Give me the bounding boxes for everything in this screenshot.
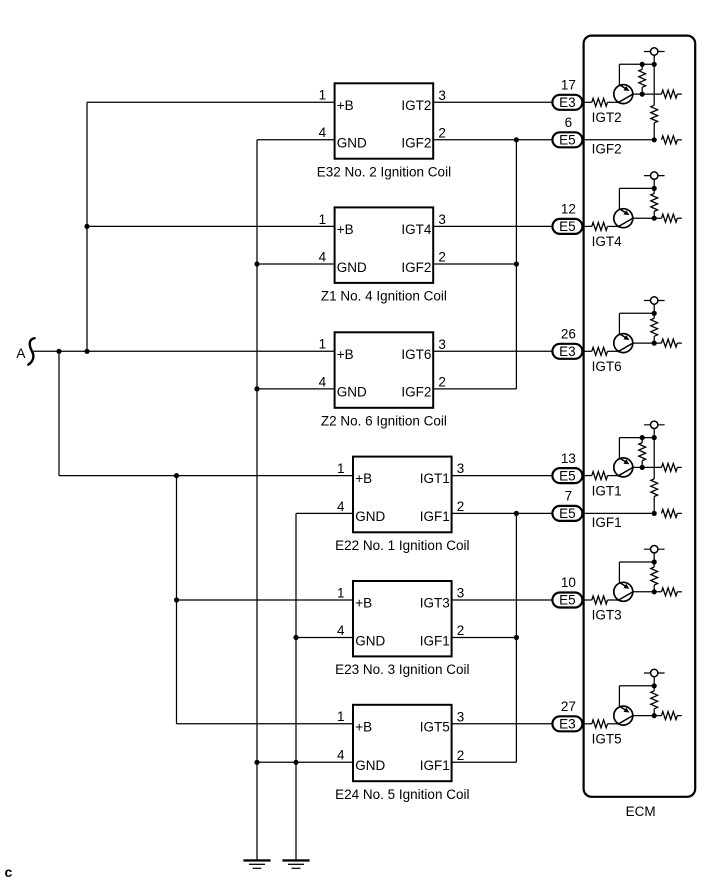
svg-text:IGT4: IGT4: [401, 222, 431, 237]
svg-text:10: 10: [561, 575, 576, 590]
svg-text:E32 No. 2 Ignition Coil: E32 No. 2 Ignition Coil: [317, 165, 451, 180]
svg-text:IGT2: IGT2: [401, 98, 431, 113]
svg-text:3: 3: [457, 461, 465, 476]
svg-text:IGF2: IGF2: [592, 141, 622, 156]
svg-text:A: A: [16, 346, 25, 361]
svg-text:+B: +B: [337, 222, 354, 237]
svg-text:1: 1: [337, 461, 345, 476]
svg-text:+B: +B: [337, 98, 354, 113]
svg-text:4: 4: [337, 623, 345, 638]
svg-text:4: 4: [319, 125, 327, 140]
svg-text:3: 3: [457, 709, 465, 724]
svg-text:IGT2: IGT2: [592, 110, 622, 125]
svg-text:Z1 No. 4 Ignition Coil: Z1 No. 4 Ignition Coil: [321, 289, 447, 304]
svg-text:4: 4: [337, 748, 345, 763]
svg-text:E3: E3: [559, 717, 576, 732]
svg-text:E5: E5: [559, 468, 576, 483]
svg-text:GND: GND: [355, 509, 385, 524]
svg-text:IGF1: IGF1: [420, 758, 450, 773]
svg-text:IGF2: IGF2: [401, 260, 431, 275]
svg-text:2: 2: [457, 623, 465, 638]
svg-text:ECM: ECM: [626, 804, 656, 819]
svg-text:7: 7: [565, 489, 573, 504]
svg-text:E3: E3: [559, 95, 576, 110]
svg-text:IGF2: IGF2: [401, 385, 431, 400]
svg-text:4: 4: [337, 499, 345, 514]
svg-text:E5: E5: [559, 506, 576, 521]
svg-text:2: 2: [457, 499, 465, 514]
svg-text:26: 26: [561, 327, 576, 342]
svg-text:4: 4: [319, 374, 327, 389]
svg-text:GND: GND: [355, 758, 385, 773]
svg-text:IGT3: IGT3: [420, 596, 450, 611]
svg-text:1: 1: [319, 88, 327, 103]
svg-text:IGT3: IGT3: [592, 608, 622, 623]
svg-text:2: 2: [438, 125, 446, 140]
svg-text:IGT4: IGT4: [592, 234, 622, 249]
svg-text:E5: E5: [559, 219, 576, 234]
svg-text:27: 27: [561, 699, 576, 714]
svg-text:GND: GND: [337, 260, 367, 275]
svg-text:1: 1: [337, 585, 345, 600]
svg-text:4: 4: [319, 249, 327, 264]
svg-text:3: 3: [438, 88, 446, 103]
svg-text:E22 No. 1 Ignition Coil: E22 No. 1 Ignition Coil: [335, 538, 469, 553]
svg-text:IGT5: IGT5: [420, 719, 450, 734]
svg-text:2: 2: [438, 375, 446, 390]
svg-text:+B: +B: [355, 471, 372, 486]
svg-text:IGT6: IGT6: [401, 347, 431, 362]
svg-text:IGT5: IGT5: [592, 732, 622, 747]
svg-text:GND: GND: [355, 633, 385, 648]
svg-text:IGT1: IGT1: [420, 471, 450, 486]
svg-text:GND: GND: [337, 136, 367, 151]
svg-text:E5: E5: [559, 593, 576, 608]
svg-text:IGT6: IGT6: [592, 359, 622, 374]
svg-text:3: 3: [438, 337, 446, 352]
svg-text:2: 2: [438, 250, 446, 265]
svg-text:IGF1: IGF1: [420, 509, 450, 524]
svg-text:E5: E5: [559, 133, 576, 148]
svg-text:6: 6: [565, 115, 573, 130]
svg-text:E23 No. 3 Ignition Coil: E23 No. 3 Ignition Coil: [335, 662, 469, 677]
svg-text:Z2 No. 6 Ignition Coil: Z2 No. 6 Ignition Coil: [321, 414, 447, 429]
svg-text:IGT1: IGT1: [592, 483, 622, 498]
svg-text:3: 3: [457, 586, 465, 601]
svg-text:IGF1: IGF1: [420, 633, 450, 648]
svg-text:c: c: [5, 864, 13, 880]
svg-text:1: 1: [319, 337, 327, 352]
svg-text:13: 13: [561, 451, 576, 466]
svg-text:E3: E3: [559, 344, 576, 359]
svg-text:1: 1: [319, 212, 327, 227]
svg-text:+B: +B: [337, 347, 354, 362]
svg-text:IGF1: IGF1: [592, 515, 622, 530]
svg-text:IGF2: IGF2: [401, 136, 431, 151]
svg-text:1: 1: [337, 709, 345, 724]
svg-text:GND: GND: [337, 385, 367, 400]
svg-text:3: 3: [438, 212, 446, 227]
svg-text:+B: +B: [355, 719, 372, 734]
svg-text:12: 12: [561, 202, 576, 217]
svg-text:17: 17: [561, 78, 576, 93]
svg-text:E24 No. 5 Ignition Coil: E24 No. 5 Ignition Coil: [335, 787, 469, 802]
svg-text:2: 2: [457, 748, 465, 763]
svg-text:+B: +B: [355, 596, 372, 611]
